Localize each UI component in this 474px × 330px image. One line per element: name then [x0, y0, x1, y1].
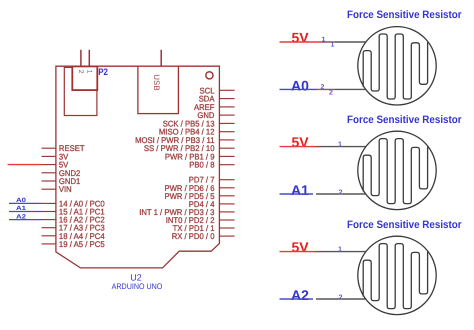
FSR1 pin number 2 labels: [321, 84, 334, 96]
part name ARDUINO UNO: [112, 282, 163, 291]
pin GND2 (left): [42, 169, 81, 178]
FSR3 title: [347, 219, 462, 231]
pin PWR / PB1 / 9 (right): [165, 152, 235, 161]
svg-text:5V: 5V: [292, 239, 310, 255]
reference designator U2: [130, 273, 142, 283]
pin INT 1 / PWR / PD3 / 3 (right): [139, 208, 234, 217]
FSR1 pin 2 leg: [335, 88, 365, 90]
svg-text:2: 2: [321, 84, 325, 91]
pin 3V (left): [42, 152, 69, 161]
pin GND1 (left): [42, 177, 81, 186]
FSR3 pin 2 leg: [316, 298, 365, 300]
net label A0 (left): [16, 197, 27, 204]
svg-text:U2: U2: [130, 273, 142, 283]
pin PB0 / 8 (right): [189, 161, 234, 170]
pin MOSI / PWR / PB3 / 11 (right): [135, 136, 235, 145]
pin RESET (left): [42, 144, 85, 153]
svg-text:1: 1: [338, 139, 342, 148]
svg-text:1: 1: [338, 244, 342, 253]
svg-text:ARDUINO UNO: ARDUINO UNO: [112, 282, 163, 291]
net label 5V (FSR1): [292, 29, 310, 45]
mounting hole: [206, 72, 213, 79]
arduino U2 body outline: [56, 66, 220, 268]
FSR3 body circle: [358, 236, 436, 314]
USB connector box: [138, 66, 179, 113]
pin INT0 / PD2 / 2 (right): [166, 216, 235, 225]
svg-text:PB0 / 8: PB0 / 8: [189, 161, 215, 170]
svg-text:A1: A1: [291, 182, 309, 198]
pin 16 / A2 / PC2 (left): [42, 216, 106, 225]
FSR3 pin number 1 label: [338, 244, 342, 253]
svg-text:USB: USB: [152, 74, 161, 90]
svg-text:1: 1: [85, 70, 92, 74]
pin MISO / PB4 / 12 (right): [159, 128, 235, 137]
connector P2 header box: [72, 66, 97, 90]
connector P2 pin 2 leg: [80, 50, 82, 67]
svg-text:1: 1: [322, 37, 326, 44]
svg-text:2: 2: [329, 89, 333, 96]
FSR1 pin 1 leg: [335, 41, 366, 43]
pin PD4 / 4 (right): [189, 200, 235, 209]
wire A1 to arduino pin: [9, 211, 42, 213]
wire 5V to FSR1 pin 1: [280, 41, 336, 43]
svg-text:19 / A5 / PC5: 19 / A5 / PC5: [59, 240, 105, 249]
FSR1 body circle: [358, 27, 436, 105]
FSR1 serpentine element: [363, 34, 427, 99]
net label A1 (left): [16, 205, 27, 212]
pin SDA (right): [199, 95, 235, 104]
svg-text:1: 1: [331, 42, 335, 49]
pin PWR / PD6 / 6 (right): [165, 184, 235, 193]
FSR2 pin 1 leg: [321, 146, 366, 148]
pin 14 / A0 / PC0 (left): [42, 199, 106, 208]
pin AREF (right): [194, 103, 235, 112]
svg-text:RX / PD0 / 0: RX / PD0 / 0: [172, 232, 215, 241]
net label 5V (FSR3): [292, 239, 310, 255]
connector P2 outer frame: [64, 67, 97, 115]
USB connector leg: [160, 50, 162, 66]
wire 5V to FSR2 pin 1: [280, 146, 322, 148]
pin PD7 / 7 (right): [189, 176, 235, 185]
svg-text:Force Sensitive Resistor: Force Sensitive Resistor: [347, 114, 462, 126]
connector P2 pin 1 leg: [88, 50, 90, 67]
net label 5V (FSR2): [292, 134, 310, 150]
wire A0 to arduino pin: [9, 202, 42, 204]
pin GND (right): [197, 111, 234, 120]
svg-text:Force Sensitive Resistor: Force Sensitive Resistor: [347, 219, 462, 231]
wire A1 to FSR2 pin 2: [280, 193, 314, 195]
net label A2 (left): [16, 213, 27, 220]
wire 5V to FSR3 pin 1: [280, 251, 322, 253]
svg-text:5V: 5V: [292, 134, 310, 150]
svg-text:P2: P2: [98, 67, 108, 78]
svg-text:Force Sensitive Resistor: Force Sensitive Resistor: [347, 9, 462, 21]
svg-text:2: 2: [77, 70, 84, 74]
FSR2 title: [347, 114, 462, 126]
pin PWR / PD5 / 5 (right): [165, 192, 235, 201]
wire A0 to FSR1 pin 2: [280, 88, 336, 90]
pin RX / PD0 / 0 (right): [172, 232, 235, 241]
svg-text:5V: 5V: [292, 29, 310, 45]
FSR3 pin 1 leg: [321, 251, 366, 253]
connector P2 pin number 2: [77, 70, 84, 74]
pin SS / PWR / PB2 / 10 (right): [144, 144, 235, 153]
pin 15 / A1 / PC1 (left): [42, 208, 106, 217]
pin TX / PD1 / 1 (right): [173, 224, 235, 233]
svg-text:2: 2: [339, 188, 343, 197]
pin 19 / A5 / PC5 (left): [42, 240, 106, 249]
wire A2 to arduino pin: [9, 219, 42, 221]
pin VIN (left): [42, 185, 72, 194]
FSR2 pin number 1 label: [338, 139, 342, 148]
net label A0 (FSR1): [291, 77, 309, 93]
wire 5V net to arduino 5V pin: [8, 164, 42, 166]
USB label: [152, 74, 161, 90]
FSR2 pin number 2 label: [339, 188, 343, 197]
FSR3 serpentine element: [363, 244, 427, 309]
net label A2 (FSR3): [291, 287, 309, 303]
FSR3 pin number 2 label: [339, 293, 343, 302]
svg-text:2: 2: [339, 293, 343, 302]
connector P2 pin number 1: [85, 70, 92, 74]
pin 5V (left): [42, 161, 69, 170]
wire A2 to FSR3 pin 2: [280, 298, 314, 300]
FSR1 title: [347, 9, 462, 21]
svg-text:A2: A2: [291, 287, 309, 303]
svg-text:A0: A0: [291, 77, 309, 93]
connector P2 reference label: [98, 67, 108, 78]
FSR2 body circle: [358, 131, 436, 209]
pin SCL (right): [200, 86, 235, 95]
pin 18 / A4 / PC4 (left): [42, 232, 106, 241]
FSR2 pin 2 leg: [316, 193, 365, 195]
pin 17 / A3 / PC3 (left): [42, 224, 106, 233]
net label A1 (FSR2): [291, 182, 309, 198]
FSR2 serpentine element: [363, 139, 427, 204]
svg-text:VIN: VIN: [59, 185, 72, 194]
FSR1 pin number 1 labels: [322, 37, 335, 49]
pin SCK / PB5 / 13 (right): [163, 119, 235, 128]
